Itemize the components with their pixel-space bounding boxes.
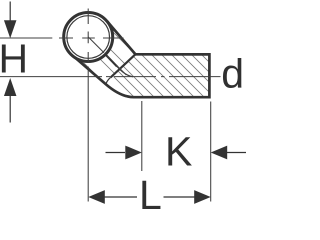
socket end-face edge bbox=[111, 54, 136, 77]
svg-text:d: d bbox=[221, 51, 244, 97]
H dimension arrow (down) bbox=[4, 20, 17, 38]
vertical centerline of socket / L left extension line bbox=[87, 9, 89, 202]
H dimension arrow (up) bbox=[4, 78, 17, 96]
section hatching: horizontal outlet body bbox=[37, 0, 320, 211]
socket opening inner circle (bore) bbox=[67, 16, 110, 59]
L dimension line left segment bbox=[104, 196, 137, 198]
socket opening outer circle bbox=[64, 13, 113, 62]
K dimension arrow (left-pointing) bbox=[211, 146, 228, 160]
K dimension arrow (right-pointing) bbox=[125, 146, 142, 160]
horizontal outlet axis centerline to label d (dash-dot) bbox=[0, 76, 221, 78]
inner bend silhouette line from socket rim bbox=[106, 55, 118, 67]
horizontal centerline of socket / H top extension line bbox=[0, 37, 124, 39]
L dimension arrow (left-pointing) bbox=[88, 190, 105, 204]
45 deg socket axis centerline (dash-dot) bbox=[88, 37, 126, 75]
K dimension right tail bbox=[227, 152, 246, 154]
K left extension line bbox=[141, 101, 143, 171]
H dimension line lower tail bbox=[9, 96, 11, 123]
L dimension line right segment bbox=[164, 196, 196, 198]
section hatching: 45 deg socket collar bbox=[21, 0, 292, 211]
fitting outline: collar cone top, outlet top edge, outlet end, bottom edge, bend arc, collar cone bottom bbox=[70, 21, 210, 97]
inner bend silhouette fillet curve bbox=[117, 67, 133, 77]
K dimension left tail bbox=[106, 152, 126, 154]
H dimension line upper tail bbox=[9, 2, 11, 22]
K and L right extension line bbox=[210, 102, 212, 202]
svg-text:L: L bbox=[139, 172, 162, 211]
L dimension arrow (right-pointing) bbox=[194, 190, 211, 204]
svg-text:K: K bbox=[165, 128, 192, 174]
socket end-face lower fillet bbox=[106, 78, 111, 85]
svg-text:H: H bbox=[0, 36, 28, 82]
